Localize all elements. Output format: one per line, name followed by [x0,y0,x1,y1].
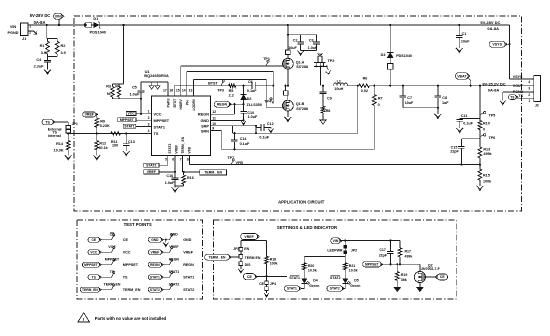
ground below R15 [477,186,484,191]
svg-text:EN: EN [244,247,249,251]
svg-text:VREF: VREF [147,170,156,174]
settings box dash-dot border [213,220,456,299]
svg-text:VSYS: VSYS [492,43,502,47]
series jumper box at D1 [83,22,91,28]
svg-text:TS: TS [518,94,523,98]
svg-text:VBAT: VBAT [457,74,467,78]
svg-text:CE: CE [440,275,445,279]
svg-text:PGND: PGND [8,31,19,35]
resistor R2 [48,39,66,57]
svg-text:TP4: TP4 [264,99,272,103]
net STAT1 overline [289,276,300,280]
net label STAT2 flag [327,286,345,291]
resistor R16 [175,172,194,186]
svg-text:22pF: 22pF [379,254,388,258]
J1 pin2 PGND arrow [28,31,37,34]
wire LED bracket [304,257,345,263]
capacitor C17 22pF [379,239,394,265]
wire TS row pin4 [67,132,151,134]
svg-text:16: 16 [169,88,173,92]
U1 top pin numbers 17 16 15 14 13 [163,88,192,92]
svg-text:0: 0 [483,128,485,132]
ground below C4 [44,70,51,75]
resistor R12 [95,133,109,155]
svg-text:DIS: DIS [245,263,252,267]
svg-text:C13: C13 [128,140,135,144]
LED D4 Green [301,279,320,289]
wire SRN sense line [221,148,374,150]
U1 pin15 HIDRV stub [180,66,182,96]
svg-text:TERM_ EN: TERM_ EN [204,171,222,175]
ground below C11 [456,128,463,133]
svg-text:3: 3 [528,87,530,91]
svg-text:0A-8A: 0A-8A [487,26,499,31]
sense resistor R6 0.02 [359,77,370,93]
ground below Q2 [417,287,424,291]
wire VREF to EN and R18 [241,240,267,256]
svg-text:C5: C5 [132,85,137,89]
svg-text:STAT2: STAT2 [146,164,156,168]
svg-text:1.0uF: 1.0uF [165,181,175,185]
wire battery row [369,85,527,87]
ground below R8 [320,120,326,124]
U1 pin14 PH stub [186,72,188,96]
svg-text:STAT2: STAT2 [150,288,160,292]
label 5V-28V DC 0A-8A [30,13,51,25]
svg-text:0.1uF: 0.1uF [259,136,269,140]
svg-text:VREF: VREF [151,250,160,254]
capacitor C1 [456,24,470,48]
svg-text:LEDPWR: LEDPWR [327,249,343,253]
svg-text:L1: L1 [337,80,341,84]
svg-text:REGN: REGN [169,258,180,262]
resistor R21 [343,263,357,279]
node BTST-D2 [243,85,245,87]
svg-text:VREF: VREF [244,235,254,239]
svg-text:STAT1: STAT1 [150,275,160,279]
svg-text:D1: D1 [93,17,98,21]
ground below C1 [456,48,463,53]
svg-text:STAT1: STAT1 [287,287,297,291]
svg-text:TS: TS [154,132,159,136]
svg-text:Green: Green [309,284,319,288]
U1 pin13 LODRV stub [193,80,195,96]
svg-text:4: 4 [148,129,150,133]
wire PGND pin2 [503,92,528,101]
svg-text:STAT2: STAT2 [169,283,180,287]
svg-text:CE: CE [110,233,116,237]
svg-text:0.1uF: 0.1uF [247,89,257,93]
svg-text:R12: R12 [99,142,106,146]
resistor R4 [115,84,121,99]
jumper JP4 [259,276,276,293]
svg-text:R6: R6 [363,77,368,81]
capacitor C16 [165,172,179,188]
transistor Q1.A SI7288 [283,54,308,69]
svg-text:CE: CE [259,282,265,286]
svg-text:VCC: VCC [154,113,162,117]
ground below C2 C3 [297,51,304,56]
net label REGN [214,101,231,107]
net label MPPSET settings [363,262,420,267]
svg-text:C1: C1 [462,32,467,36]
svg-text:TEST POINTS: TEST POINTS [124,222,152,227]
U1 left pin numbers [148,110,150,134]
svg-text:STAT1: STAT1 [289,276,300,280]
svg-text:MPPSET: MPPSET [120,118,135,122]
svg-text:100k: 100k [270,262,278,266]
svg-text:R3: R3 [106,85,111,89]
svg-text:MPPSET: MPPSET [123,263,139,267]
test point CE row [88,232,128,242]
labels External TS Internal [48,127,62,138]
wire PH node row [255,85,333,87]
net label VSYS [489,41,509,47]
svg-text:STAT1: STAT1 [169,270,180,274]
test point TP3 [208,80,224,93]
svg-text:Parts with no value are not in: Parts with no value are not installed [95,316,167,321]
capacitor C14 [231,133,250,149]
wire R10 to TP6 [479,130,481,147]
svg-text:HIDRV: HIDRV [179,99,183,110]
net label VIN settings [331,238,346,244]
wire SRP stub pin10 junction [233,125,256,127]
svg-text:TERM_EN: TERM_EN [104,283,121,287]
svg-text:3.9: 3.9 [61,51,66,55]
wire divider chain [479,86,481,121]
svg-text:3.9: 3.9 [41,51,46,55]
svg-text:2N7002-7-F: 2N7002-7-F [421,267,441,271]
svg-text:JP1: JP1 [72,122,78,126]
transistor Q1.B SI7288 [283,95,308,111]
wire MPPSET to pin2 [136,119,152,121]
wire C2 C3 bottom bracket [301,50,317,52]
svg-text:CE: CE [247,275,252,279]
wire HIDRV to Q1A gate [181,65,283,67]
resistor R11 [111,132,121,148]
wire TS to JP1 [53,122,68,125]
wire BTST row [174,85,252,87]
diode D1 PDS1040 [90,17,106,34]
svg-text:D5: D5 [354,279,359,283]
svg-text:13: 13 [189,88,193,92]
test point REGN row [148,258,194,268]
test point VCC row [88,245,131,255]
svg-text:R2: R2 [61,44,66,48]
svg-text:0A-8A: 0A-8A [34,20,46,25]
svg-text:VCC: VCC [108,245,116,249]
svg-text:BQ24650RVA: BQ24650RVA [144,73,169,78]
svg-text:14: 14 [182,88,186,92]
svg-text:PDS1040: PDS1040 [90,31,106,35]
svg-text:VREF: VREF [85,113,95,117]
svg-text:REGN: REGN [183,263,194,267]
flag STAT2 at pin5 [144,155,168,167]
test point MPPSET row [82,258,138,268]
svg-text:R7: R7 [378,97,383,101]
svg-text:TS: TS [45,120,50,124]
capacitor C11 [456,114,480,128]
connector J1 [8,23,33,41]
svg-text:SRN: SRN [201,130,209,134]
wire Q1A drain from bus [287,24,289,50]
svg-text:0.02: 0.02 [361,89,368,93]
svg-text:SI7288: SI7288 [296,65,308,69]
test point VREF row [148,245,193,255]
svg-text:JP2: JP2 [351,249,357,253]
application circuit dash-dot border [74,16,521,211]
svg-text:STAT2: STAT2 [183,288,194,292]
wire R3R4 bottom bracket [113,98,143,100]
flag VCC [126,112,136,116]
ground at C12 [268,129,274,133]
net STAT2 overline [330,276,341,280]
capacitor C8 [435,86,450,114]
svg-text:ZLLS350: ZLLS350 [247,103,262,107]
svg-text:R14: R14 [56,142,64,146]
U1 pin16 BTST stub [173,86,175,96]
test point TP6 [480,134,495,140]
svg-text:APPLICATION CIRCUIT: APPLICATION CIRCUIT [278,199,325,204]
svg-text:MPPSET: MPPSET [105,258,120,262]
svg-text:TP3: TP3 [217,88,224,92]
wire Q1B drain [284,85,286,91]
svg-text:10uF: 10uF [461,40,470,44]
test point TP7 [227,156,243,165]
wire GND pin11 [211,119,245,121]
svg-text:2.2: 2.2 [229,93,234,97]
capacitor C13 [123,133,135,151]
test point GND row [148,233,191,247]
svg-text:VCC: VCC [90,250,98,254]
capacitor C6 bootstrap [247,80,257,93]
svg-text:TERM_EN: TERM_EN [82,288,98,292]
svg-text:10uH: 10uH [334,87,343,91]
svg-text:REGN: REGN [150,263,160,267]
jumper box on Q1B drain [283,91,288,96]
svg-text:4: 4 [528,80,530,84]
wire VSYS down [508,25,527,79]
svg-text:8: 8 [187,158,189,162]
svg-text:6: 6 [172,158,174,162]
U1 right pin labels [198,113,209,134]
svg-text:C7: C7 [407,96,412,100]
svg-text:VIN: VIN [333,239,339,243]
svg-text:9: 9 [212,127,214,131]
J2 pin labels [513,75,524,98]
svg-text:R1: R1 [40,44,45,48]
capacitor C7 [400,86,414,108]
svg-text:12: 12 [212,110,216,114]
svg-text:5V-28V DC: 5V-28V DC [30,13,51,18]
svg-text:VSYS: VSYS [513,75,523,79]
op-amp U1 BQ24650RVA body [144,69,210,156]
wire PH net [187,72,275,104]
ground below R14 [65,155,72,160]
svg-text:22pF: 22pF [450,150,459,154]
jumper box below D3 [387,58,393,86]
ground below R12 [93,155,100,160]
title SETTINGS & LED INDICATOR [277,225,338,230]
wire Q2 gate to CE [424,276,435,278]
svg-text:5.23K: 5.23K [100,124,110,128]
svg-text:Internal: Internal [48,134,61,138]
wire VFB pin8 [190,155,481,165]
svg-text:C8: C8 [442,96,447,100]
svg-text:PH: PH [185,100,189,105]
inductor L1 10uH [334,80,348,92]
flag MPPSET [118,118,136,122]
connector J2 [528,76,541,108]
svg-text:0.1uF: 0.1uF [463,122,473,126]
svg-text:R16: R16 [187,176,194,180]
flag TERM_EN at pin7 [182,155,226,175]
svg-text:VIN: VIN [10,25,17,29]
svg-text:STAT1: STAT1 [183,276,194,280]
svg-text:Q1.B: Q1.B [296,102,305,106]
svg-text:MPPSET: MPPSET [365,262,379,266]
svg-text:C11: C11 [461,114,468,118]
svg-text:REGN: REGN [198,113,209,117]
resistor R14 [54,133,70,155]
svg-text:10.0K: 10.0K [54,148,64,152]
resistor R19 36k [395,263,407,287]
svg-text:JP4: JP4 [270,282,276,286]
svg-text:R8: R8 [326,109,331,113]
svg-text:J2: J2 [535,104,539,108]
ground below R19 [394,287,401,291]
net label TS at J2 [509,95,528,100]
LED D5 Green [342,279,361,289]
svg-text:100k: 100k [483,179,492,183]
capacitor C2 [287,34,317,51]
svg-text:10uF: 10uF [288,46,297,50]
ground below JP4 [264,293,269,297]
resistor R9 [95,114,110,133]
svg-text:MPPSET: MPPSET [84,263,98,267]
svg-text:0: 0 [378,103,380,107]
capacitor C10 [240,104,258,120]
svg-text:J1: J1 [22,37,26,41]
title APPLICATION CIRCUIT [278,199,325,204]
svg-text:36k: 36k [401,278,407,282]
svg-text:STAT2: STAT2 [168,143,172,153]
ground below C16 R16 [172,187,179,192]
net label STAT1 flag [284,286,301,291]
svg-text:5V-28V DC: 5V-28V DC [480,20,500,25]
svg-text:R10: R10 [483,122,490,126]
wire VCC to pin1 [136,113,152,115]
svg-text:MPPSET: MPPSET [154,119,170,123]
svg-text:R5: R5 [229,89,234,93]
svg-text:SI7288: SI7288 [296,107,308,111]
wire SRN pin9 [211,131,222,150]
wire R7 to SRN line [373,105,375,149]
flag VREF at pin6 [144,155,176,174]
svg-text:R9: R9 [100,119,105,123]
svg-text:5: 5 [165,158,167,162]
U1 left pin labels [154,113,170,136]
svg-text:PDS1040: PDS1040 [396,54,412,58]
svg-text:R17: R17 [405,250,411,254]
resistor R5 [229,84,236,98]
test point TP5 [480,112,495,118]
svg-text:100: 100 [112,143,118,147]
svg-text:LODRV: LODRV [192,98,196,110]
U1 bottom pin numbers [165,158,189,162]
svg-text:499k: 499k [483,152,492,156]
svg-text:R19: R19 [401,273,407,277]
svg-text:C14: C14 [240,137,248,141]
wire SRP sense line [233,86,358,135]
svg-text:TERM_EN: TERM_EN [123,288,141,292]
svg-text:C2: C2 [293,38,298,42]
svg-text:15: 15 [176,88,180,92]
wire REGN node [211,103,245,114]
svg-text:VCC: VCC [128,112,136,116]
svg-text:8V-25.2V DC: 8V-25.2V DC [482,82,505,87]
svg-text:VREF: VREF [183,251,194,255]
svg-text:TP7: TP7 [227,156,234,160]
svg-text:C17: C17 [379,248,385,252]
capacitor C12 [255,122,274,139]
svg-text:VIN: VIN [55,14,61,18]
svg-text:GND: GND [151,238,159,242]
net label VBAT [456,73,471,86]
svg-text:GND: GND [200,119,209,123]
U1 internal top labels [167,98,196,110]
jumper JP1 [66,122,78,133]
ground tick TP2 [325,70,330,74]
U1 internal bottom labels [168,136,192,153]
capacitor C4 [34,57,51,70]
snubber C9 [320,85,332,107]
resistor R17 499k [398,240,412,265]
svg-text:PwPd: PwPd [167,99,171,108]
test points box dash-dot border [77,220,203,299]
flag STAT1 [123,124,136,128]
transistor Q2 2N7002-7-F [414,263,440,287]
svg-text:VREF: VREF [175,145,179,154]
svg-text:TP6: TP6 [489,136,496,140]
jumper JP3 [233,247,261,269]
svg-text:NI: NI [107,92,111,96]
resistor R7 0ohm [372,86,382,107]
wire SRP pin10 [211,126,233,133]
test point STAT1 row [148,270,194,280]
svg-text:SRP: SRP [201,125,209,129]
svg-text:TP1: TP1 [263,57,270,61]
net label TERM_EN settings [205,254,239,260]
resistor R18 100k [265,256,278,277]
capacitor C5 [129,82,144,115]
wire VIN bus [28,24,509,26]
svg-text:7: 7 [180,158,182,162]
svg-text:TS: TS [123,276,128,280]
resistor R1 [40,24,58,57]
svg-text:R15: R15 [483,173,490,177]
title TEST POINTS [124,222,152,227]
svg-text:499k: 499k [405,255,413,259]
svg-text:0A-8A: 0A-8A [488,87,500,92]
ground tick C3 [318,53,323,56]
ground below JP3 DIS [238,269,244,273]
node after D1 [123,24,125,26]
svg-text:REGN: REGN [217,102,228,106]
svg-text:SW: SW [318,53,323,57]
svg-text:2: 2 [148,116,150,120]
svg-text:D2: D2 [247,97,252,101]
